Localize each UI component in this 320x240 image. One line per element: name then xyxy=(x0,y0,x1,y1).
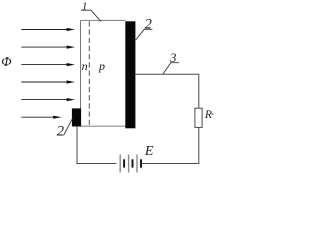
svg-text:1: 1 xyxy=(82,1,88,13)
p-n junction dashed line xyxy=(88,21,90,126)
wire from front contact down xyxy=(76,126,78,164)
light arrow 4 xyxy=(21,80,75,83)
battery E plate long 1 xyxy=(119,155,121,173)
battery E plate short 3 xyxy=(140,159,142,167)
subscript dash of R label xyxy=(212,113,214,115)
wire from electrode 2 to resistor (node 3) xyxy=(135,74,198,108)
electrode 2 (back contact, black bar) xyxy=(125,21,135,128)
light arrow 5 xyxy=(21,98,75,101)
wire resistor to bottom xyxy=(198,127,200,163)
light arrow 3 xyxy=(21,63,75,66)
semiconductor body top edge xyxy=(81,19,126,21)
semiconductor body left edge xyxy=(80,20,82,127)
resistor R xyxy=(195,108,202,127)
leader line of label 2 top xyxy=(136,29,153,40)
svg-text:2: 2 xyxy=(145,17,152,33)
bottom left wire xyxy=(77,163,117,165)
svg-text:2: 2 xyxy=(57,123,64,139)
light arrow 1 xyxy=(21,28,75,31)
light arrow 2 xyxy=(21,46,75,49)
leader line of label 3 xyxy=(163,63,179,75)
bottom right wire xyxy=(142,163,199,165)
leader line of label 2 bottom xyxy=(64,119,73,136)
svg-text:p: p xyxy=(98,59,105,73)
electrode 2 (front ring contact, black square) xyxy=(72,108,81,126)
leader line of label 1 xyxy=(81,10,101,21)
battery E plate short 1 xyxy=(123,159,125,167)
semiconductor body bottom edge xyxy=(81,125,126,127)
svg-text:R: R xyxy=(204,109,212,121)
svg-text:Φ: Φ xyxy=(1,54,11,69)
svg-text:n: n xyxy=(82,59,88,73)
battery E plate short 2 xyxy=(132,159,134,167)
battery E plate long 2 xyxy=(128,155,130,173)
battery E plate long 3 xyxy=(136,155,138,173)
light arrow 6 xyxy=(21,116,61,119)
svg-text:E: E xyxy=(144,144,154,159)
